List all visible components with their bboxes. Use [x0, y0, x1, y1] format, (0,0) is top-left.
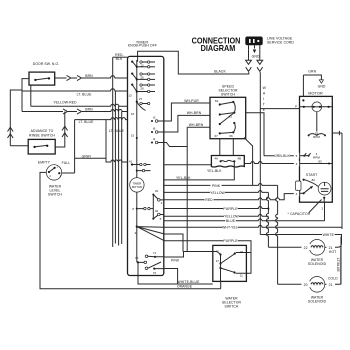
svg-text:64: 64: [215, 99, 219, 103]
svg-text:66: 66: [229, 134, 233, 138]
svg-text:ADVANCE TO: ADVANCE TO: [31, 129, 54, 133]
svg-text:15: 15: [131, 112, 135, 116]
svg-text:t2: t2: [153, 137, 156, 141]
svg-text:HOT: HOT: [329, 250, 336, 254]
svg-text:GND: GND: [318, 84, 326, 88]
svg-text:KNOB-PUSH OFF: KNOB-PUSH OFF: [128, 44, 157, 48]
svg-text:70: 70: [135, 256, 139, 260]
svg-text:GND: GND: [252, 55, 260, 59]
svg-text:GRAY: GRAY: [82, 154, 92, 158]
svg-text:P: P: [295, 105, 297, 109]
svg-text:GRN: GRN: [308, 69, 316, 73]
svg-text:32: 32: [155, 189, 159, 193]
svg-text:11: 11: [240, 274, 243, 278]
svg-text:BRN: BRN: [85, 74, 93, 78]
svg-text:82: 82: [312, 178, 316, 182]
svg-text:4B: 4B: [237, 156, 241, 160]
svg-text:YELLOW: YELLOW: [210, 191, 225, 195]
svg-text:LT.BLUE: LT.BLUE: [336, 258, 340, 272]
svg-text:LT. BLUE: LT. BLUE: [77, 93, 93, 97]
svg-text:YELLOW: YELLOW: [224, 215, 239, 219]
svg-text:83: 83: [318, 159, 322, 163]
svg-text:SOLENOID: SOLENOID: [308, 262, 327, 266]
svg-text:SERVICE CORD: SERVICE CORD: [267, 41, 294, 45]
svg-text:START: START: [306, 173, 317, 177]
svg-text:4A: 4A: [214, 156, 218, 160]
svg-text:WH-PUR: WH-PUR: [184, 99, 199, 103]
svg-text:SOLENOID: SOLENOID: [308, 299, 327, 303]
svg-text:RED: RED: [205, 198, 213, 202]
svg-text:GRN-BLK: GRN-BLK: [274, 154, 290, 158]
svg-text:YELLOW-RED: YELLOW-RED: [53, 101, 77, 105]
svg-text:WHITE-BLUE: WHITE-BLUE: [178, 280, 201, 284]
svg-text:21: 21: [329, 246, 333, 250]
svg-text:H: H: [263, 92, 266, 96]
svg-text:WHITE: WHITE: [323, 233, 335, 237]
svg-text:21: 21: [329, 283, 333, 287]
svg-text:15: 15: [131, 134, 135, 138]
svg-text:DIAGRAM: DIAGRAM: [201, 43, 236, 53]
svg-text:BRN: BRN: [85, 107, 93, 111]
svg-text:* CAPACITOR: * CAPACITOR: [288, 212, 311, 216]
svg-text:PURPLE: PURPLE: [223, 239, 238, 243]
svg-text:I: I: [263, 97, 264, 101]
svg-text:PINK: PINK: [212, 184, 221, 188]
svg-text:FULL: FULL: [62, 161, 71, 165]
svg-text:MOTOR: MOTOR: [308, 92, 323, 96]
svg-text:26: 26: [140, 87, 144, 91]
svg-text:17: 17: [216, 259, 220, 263]
svg-text:T: T: [263, 103, 265, 107]
svg-text:BLUE: BLUE: [226, 219, 236, 223]
svg-text:t3: t3: [153, 116, 156, 120]
svg-text:YEL-BLK: YEL-BLK: [207, 169, 222, 173]
svg-text:LT. BLUE: LT. BLUE: [79, 120, 95, 124]
svg-text:MOTOR: MOTOR: [132, 185, 142, 189]
svg-text:YEL-BLK: YEL-BLK: [176, 176, 191, 180]
svg-text:PURPLE: PURPLE: [223, 207, 238, 211]
svg-text:WHT-YEL: WHT-YEL: [222, 226, 238, 230]
svg-text:SWITCH: SWITCH: [225, 305, 239, 309]
svg-text:SWITCH: SWITCH: [48, 192, 62, 196]
svg-text:EMPTY: EMPTY: [38, 161, 51, 165]
svg-text:27: 27: [139, 97, 143, 101]
svg-text:13: 13: [128, 93, 132, 97]
svg-text:41: 41: [129, 159, 133, 163]
svg-text:32: 32: [155, 209, 159, 213]
svg-text:BLACK: BLACK: [214, 70, 226, 74]
svg-text:72: 72: [153, 271, 157, 275]
svg-text:71: 71: [153, 251, 157, 255]
svg-text:20: 20: [304, 283, 308, 287]
svg-text:ORANGE: ORANGE: [177, 285, 193, 289]
svg-text:18: 18: [240, 250, 244, 254]
svg-text:RINSE SWITCH: RINSE SWITCH: [29, 134, 55, 138]
svg-text:LT. BLUE: LT. BLUE: [109, 129, 125, 133]
svg-text:WH-BRN: WH-BRN: [187, 111, 202, 115]
svg-text:PINK: PINK: [171, 258, 180, 262]
svg-text:SWITCH: SWITCH: [221, 93, 235, 97]
svg-text:WH-BRN: WH-BRN: [189, 123, 204, 127]
svg-text:DOOR SW. N.O.: DOOR SW. N.O.: [33, 62, 60, 66]
svg-text:67: 67: [215, 134, 219, 138]
svg-text:COLD: COLD: [328, 277, 338, 281]
svg-text:t9: t9: [153, 127, 156, 131]
svg-text:22: 22: [304, 246, 308, 250]
